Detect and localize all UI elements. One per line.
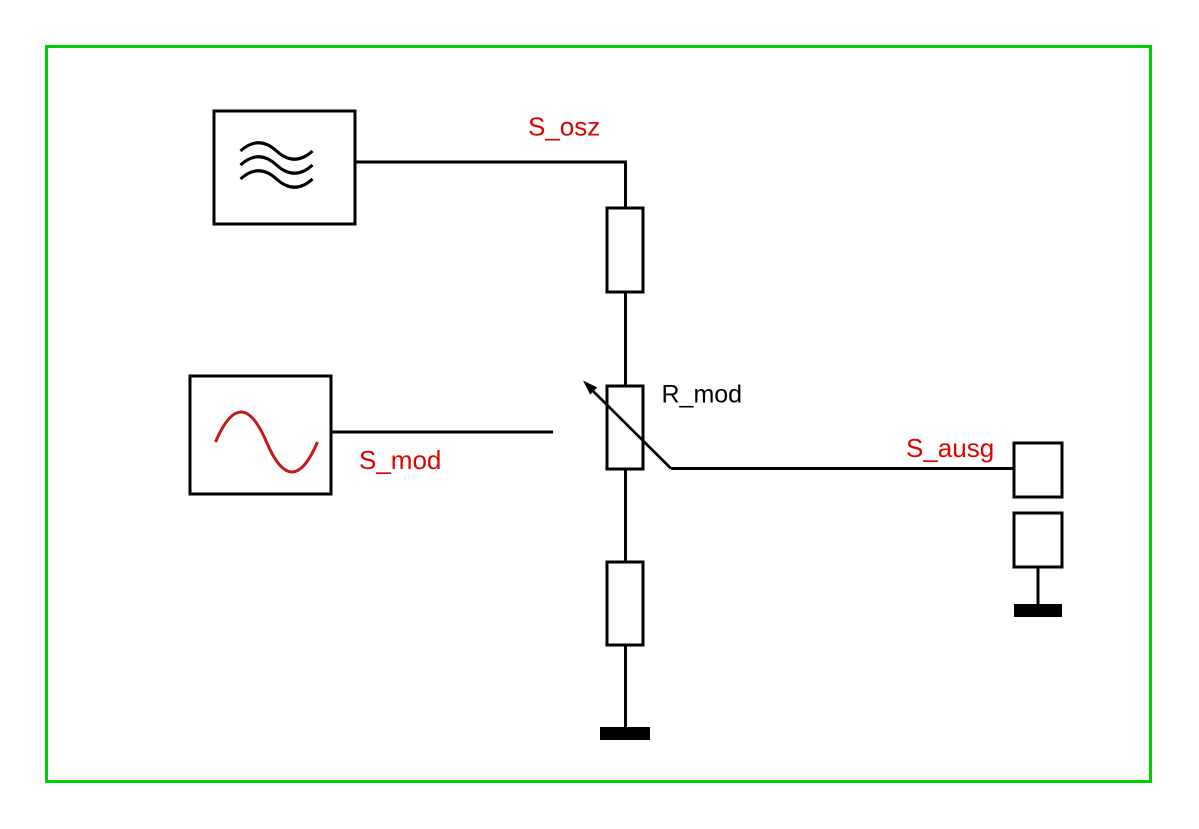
wire: wiper to output — [671, 467, 1014, 470]
ground (right) — [1014, 604, 1062, 617]
wire: corner down to upper resistor — [624, 161, 627, 209]
wire: potentiometer bottom to lower resistor — [624, 469, 627, 562]
wire: sine generator output — [331, 431, 553, 434]
wire: generator output horizontal — [355, 161, 626, 164]
resistor (upper) — [607, 208, 643, 292]
svg-text:S_osz: S_osz — [528, 112, 600, 142]
connector box (upper right) — [1014, 443, 1062, 497]
potentiometer R_mod — [583, 381, 671, 470]
resistor (lower) — [607, 562, 643, 645]
wire: lower resistor to ground — [624, 645, 627, 727]
svg-text:R_mod: R_mod — [662, 381, 743, 409]
wire: upper resistor to potentiometer — [624, 292, 627, 386]
connector box (lower right) — [1014, 513, 1062, 567]
wire: connector to ground — [1037, 567, 1040, 604]
svg-text:S_ausg: S_ausg — [906, 433, 994, 463]
ground (bottom) — [600, 727, 650, 740]
sine source box (LF generator) — [190, 376, 331, 494]
oscillator source box (HF generator) — [214, 111, 355, 224]
svg-text:S_mod: S_mod — [359, 445, 441, 475]
